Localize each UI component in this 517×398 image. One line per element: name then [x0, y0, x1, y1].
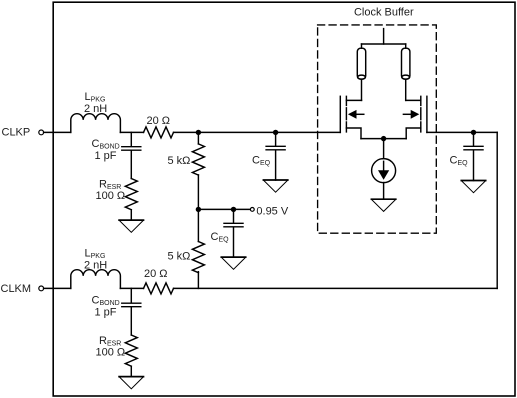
- svg-text:5 kΩ: 5 kΩ: [168, 155, 191, 167]
- transistor M1 drain lead: [346, 99, 361, 101]
- svg-text:20 Ω: 20 Ω: [147, 115, 171, 127]
- resistor 5k top: [192, 144, 204, 175]
- node CEQ right tap: [471, 130, 476, 135]
- transistor M1 bulk arrow: [357, 113, 364, 115]
- svg-text:1 pF: 1 pF: [95, 306, 117, 318]
- inductor LPKG bottom (2 nH): [71, 270, 121, 289]
- ground under RESR bottom: [119, 376, 143, 378]
- resistor 20 ohm top: [144, 127, 174, 138]
- ground under CEQ right: [461, 180, 485, 182]
- wire right column down to CLKM line: [496, 132, 498, 288]
- svg-text:100 Ω: 100 Ω: [96, 190, 126, 202]
- node common source: [381, 136, 386, 141]
- resistor RESR top (100 ohm): [125, 179, 137, 210]
- wire RESR to ground top: [130, 210, 132, 220]
- svg-text:1 pF: 1 pF: [95, 150, 117, 162]
- capacitor CBOND bottom plates: [122, 303, 141, 307]
- capacitor CEQ top plates: [266, 146, 285, 150]
- load resistor left body: [357, 48, 365, 79]
- svg-text:2 nH: 2 nH: [84, 103, 107, 115]
- capacitor CEQ top lead: [275, 132, 277, 146]
- terminal CLKM pin: [39, 286, 44, 291]
- ground under CEQ top: [263, 179, 287, 181]
- svg-text:100 Ω: 100 Ω: [96, 347, 126, 359]
- inductor LPKG top (2 nH): [71, 114, 121, 133]
- transistor M1 gate plate: [339, 96, 341, 132]
- capacitor CEQ right plates: [464, 146, 483, 150]
- svg-text:20 Ω: 20 Ω: [144, 268, 168, 280]
- wire CEQ right to ground: [473, 151, 475, 181]
- load resistor right bottom ellipse: [402, 75, 410, 79]
- load resistor right body: [402, 48, 410, 79]
- mid node junction: [196, 207, 201, 212]
- svg-text:CLKP: CLKP: [2, 127, 31, 139]
- capacitor CBOND top plates: [122, 147, 141, 151]
- ground under RESR top: [119, 219, 143, 221]
- ground under current source: [371, 198, 395, 200]
- transistor M1 source lead: [346, 128, 361, 139]
- wire node to 5k top: [197, 132, 199, 144]
- wire CEQ top to ground: [275, 151, 277, 181]
- wire RESR to ground bottom: [130, 366, 132, 376]
- wire bar to right load resistor: [405, 44, 407, 48]
- wire left load to drain: [361, 79, 363, 100]
- wire drain bar: [362, 43, 406, 45]
- node CEQ top tap: [273, 130, 278, 135]
- wire 5k top to mid node: [197, 175, 199, 210]
- svg-text:0.95 V: 0.95 V: [256, 206, 288, 218]
- svg-text:2 nH: 2 nH: [84, 260, 107, 272]
- svg-text:Clock Buffer: Clock Buffer: [354, 7, 414, 19]
- capacitor CEQ right lead: [473, 132, 475, 146]
- wire 20ohm bottom to right column: [174, 287, 498, 289]
- wire source node to current source: [383, 139, 385, 159]
- wire CLKP terminal to inductor: [44, 131, 71, 133]
- wire CEQ mid to ground: [233, 228, 235, 258]
- wire inductor to 20ohm bottom: [120, 287, 143, 289]
- transistor M2 bulk arrow: [403, 113, 410, 115]
- transistor M2 drain lead: [406, 99, 421, 101]
- load resistor left bottom ellipse: [358, 75, 366, 79]
- wire CLKM terminal to inductor: [44, 287, 71, 289]
- terminal 0.95 V: [250, 208, 254, 212]
- transistor M2 source lead: [406, 128, 421, 139]
- svg-text:CLKM: CLKM: [1, 283, 32, 295]
- wire mid node to 5k bottom: [197, 209, 199, 241]
- node CEQ mid tap: [231, 207, 236, 212]
- wire CBOND to RESR top: [130, 151, 132, 179]
- current source I1 arrow: [383, 161, 385, 170]
- transistor M1 channel: [345, 96, 347, 132]
- ground under CEQ mid: [221, 256, 245, 258]
- clock buffer dashed box: [318, 25, 437, 233]
- capacitor CBOND top lead: [130, 132, 132, 146]
- resistor 20 ohm bottom: [144, 283, 174, 294]
- node after 20ohm top: [196, 130, 201, 135]
- wire mid node to 0.95V terminal: [198, 208, 250, 210]
- capacitor CEQ mid lead: [233, 209, 235, 223]
- capacitor CBOND bottom lead: [130, 288, 132, 302]
- wire current source to ground: [383, 183, 385, 200]
- transistor M2 channel: [420, 96, 422, 132]
- current source I1 circle: [372, 159, 396, 183]
- transistor M2 gate plate: [426, 96, 428, 132]
- wire right load to drain: [405, 79, 407, 100]
- wire inductor to 20ohm resistor top: [120, 131, 143, 133]
- wire supply stub: [383, 29, 385, 44]
- wire bar to left load resistor: [361, 44, 363, 48]
- wire common source bus: [361, 138, 406, 140]
- resistor RESR bottom (100 ohm): [125, 335, 137, 366]
- wire M2 gate to right column: [427, 131, 497, 133]
- resistor 5k bottom: [192, 242, 204, 273]
- wire 5k bottom to CLKM line: [197, 272, 199, 289]
- terminal CLKP pin: [39, 130, 44, 135]
- svg-text:5 kΩ: 5 kΩ: [168, 250, 191, 262]
- capacitor CEQ mid plates: [224, 223, 243, 227]
- wire CBOND to RESR bottom: [130, 307, 132, 335]
- wire 20ohm to CEQ node top: [174, 131, 341, 133]
